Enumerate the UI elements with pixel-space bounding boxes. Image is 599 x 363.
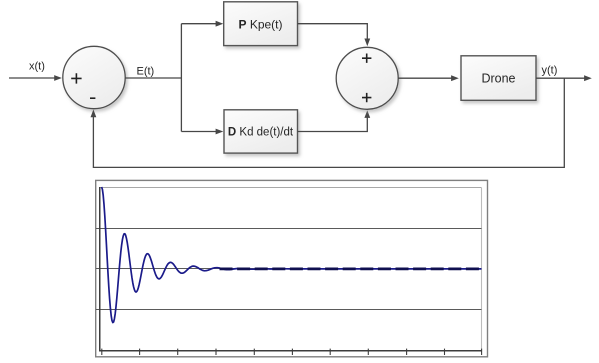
block Drone [461,56,536,101]
wire branch to D block [181,129,223,135]
S1 minus sign [90,97,95,99]
chart gridline 3 [96,309,482,311]
block P (proportional) [224,2,298,46]
wire S1 to branch node [125,77,181,79]
summing junction S1 [63,46,125,108]
svg-text:Drone: Drone [481,72,515,86]
chart plot area top border [100,187,482,189]
branch node vertical wire [180,24,182,132]
wire P block to summing junction S2 top [298,24,371,47]
chart outer frame [96,180,488,356]
wire Drone to output [536,75,592,81]
response curve (damped oscillation) [102,187,482,323]
S2 top plus sign [362,54,371,63]
chart plot area right border [481,188,483,351]
chart x-axis ticks [102,349,482,355]
wire branch to P block [181,21,223,27]
wire S2 to Drone block [398,75,459,81]
chart x-axis [99,350,482,352]
setpoint dashed line [220,268,482,271]
wire feedback loop y(t) back to S1 minus input [91,78,565,167]
wire D block to summing junction S2 bottom [298,110,371,131]
svg-text:E(t): E(t) [137,65,155,77]
svg-text:x(t): x(t) [29,60,45,72]
wire input x(t) to summing junction S1 [9,75,62,81]
svg-text:y(t): y(t) [542,64,558,76]
block D (derivative) [224,110,298,153]
chart gridline 1 [96,228,482,230]
S1 plus sign [71,73,81,83]
chart y-axis [99,187,101,351]
chart gridline 2 (setpoint level) [96,268,482,270]
summing junction S2 [336,47,398,109]
svg-text:D Kd de(t)/dt: D Kd de(t)/dt [228,127,294,139]
svg-text:P Kpe(t): P Kpe(t) [238,17,282,31]
S2 bottom plus sign [362,93,371,102]
